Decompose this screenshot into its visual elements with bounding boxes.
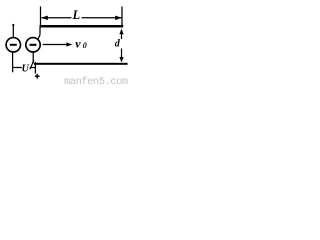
svg-text:v: v: [75, 37, 81, 51]
svg-text:manfen5.com: manfen5.com: [64, 76, 128, 86]
svg-text:L: L: [72, 8, 81, 22]
svg-text:U: U: [22, 63, 30, 74]
svg-text:0: 0: [83, 41, 87, 50]
svg-text:d: d: [115, 39, 121, 50]
